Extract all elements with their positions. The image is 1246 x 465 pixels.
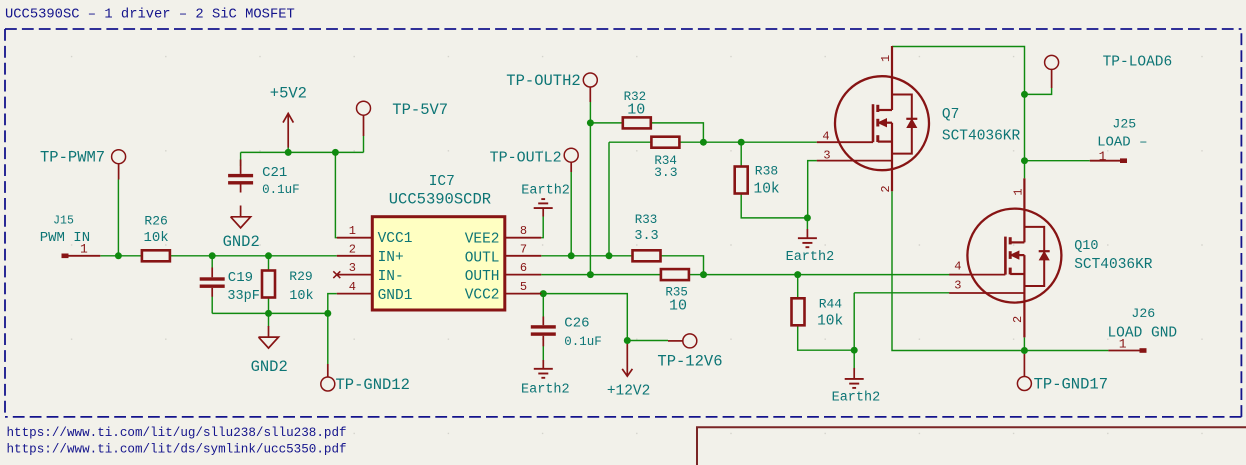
svg-text:10k: 10k (143, 230, 168, 246)
svg-text:C19: C19 (228, 270, 253, 286)
svg-text:2: 2 (349, 242, 356, 256)
svg-text:0.1uF: 0.1uF (564, 335, 602, 349)
svg-text:J25: J25 (1112, 116, 1136, 131)
svg-text:10k: 10k (289, 289, 313, 304)
svg-text:SCT4036KR: SCT4036KR (942, 129, 1021, 145)
svg-text:3: 3 (349, 261, 356, 275)
svg-text:+5V2: +5V2 (270, 85, 307, 103)
svg-text:1: 1 (879, 55, 893, 62)
svg-text:GND2: GND2 (223, 233, 260, 251)
svg-text:UCC5390SCDR: UCC5390SCDR (389, 190, 491, 208)
svg-text:TP-OUTL2: TP-OUTL2 (490, 150, 562, 167)
svg-text:3: 3 (954, 279, 961, 293)
svg-text:GND1: GND1 (378, 288, 413, 304)
svg-text:SCT4036KR: SCT4036KR (1074, 257, 1153, 273)
svg-text:Earth2: Earth2 (521, 383, 570, 398)
svg-text:VEE2: VEE2 (465, 232, 500, 248)
svg-text:Earth2: Earth2 (832, 390, 881, 405)
svg-text:IC7: IC7 (429, 174, 455, 190)
svg-text:1: 1 (349, 224, 356, 238)
svg-text:+12V2: +12V2 (607, 384, 651, 400)
svg-text:R29: R29 (289, 269, 312, 284)
svg-text:Q10: Q10 (1074, 239, 1098, 254)
svg-text:C21: C21 (262, 165, 287, 181)
svg-text:R38: R38 (755, 164, 778, 179)
svg-text:10k: 10k (754, 181, 780, 197)
svg-text:7: 7 (520, 242, 527, 256)
svg-text:IN-: IN- (378, 269, 404, 285)
svg-text:TP-GND12: TP-GND12 (336, 376, 410, 394)
svg-text:TP-12V6: TP-12V6 (657, 353, 722, 371)
svg-text:1: 1 (1119, 337, 1127, 352)
svg-text:3.3: 3.3 (634, 229, 658, 244)
svg-text:VCC1: VCC1 (378, 231, 413, 247)
svg-text:Earth2: Earth2 (521, 184, 570, 199)
svg-text:LOAD –: LOAD – (1097, 134, 1147, 150)
svg-text:1: 1 (1011, 188, 1025, 195)
svg-text:Q7: Q7 (942, 107, 959, 123)
svg-text:1: 1 (80, 242, 88, 257)
svg-text:TP-PWM7: TP-PWM7 (40, 149, 105, 167)
svg-text:10: 10 (627, 102, 645, 119)
svg-text:R33: R33 (635, 213, 658, 227)
svg-text:R44: R44 (819, 297, 843, 312)
svg-text:2: 2 (879, 185, 893, 192)
svg-text:5: 5 (520, 280, 527, 294)
svg-text:2: 2 (1011, 316, 1025, 323)
svg-text:10: 10 (669, 297, 687, 314)
svg-text:https://www.ti.com/lit/ds/syml: https://www.ti.com/lit/ds/symlink/ucc535… (7, 443, 347, 457)
svg-text:https://www.ti.com/lit/ug/sllu: https://www.ti.com/lit/ug/sllu238/sllu23… (7, 426, 347, 440)
svg-text:TP-GND17: TP-GND17 (1034, 376, 1108, 394)
svg-text:6: 6 (520, 261, 527, 275)
svg-text:4: 4 (822, 130, 829, 144)
svg-text:VCC2: VCC2 (465, 288, 500, 304)
svg-text:C26: C26 (564, 315, 589, 331)
svg-text:10k: 10k (817, 314, 843, 330)
svg-text:IN+: IN+ (378, 250, 404, 266)
svg-text:0.1uF: 0.1uF (262, 183, 300, 197)
svg-text:TP-5V7: TP-5V7 (392, 101, 448, 119)
svg-text:3: 3 (823, 148, 830, 162)
svg-text:UCC5390SC – 1 driver – 2 SiC M: UCC5390SC – 1 driver – 2 SiC MOSFET (5, 6, 295, 22)
svg-text:OUTH: OUTH (465, 269, 500, 285)
svg-text:4: 4 (349, 280, 356, 294)
svg-text:33pF: 33pF (227, 289, 259, 304)
svg-text:TP-OUTH2: TP-OUTH2 (506, 72, 580, 90)
svg-text:Earth2: Earth2 (786, 250, 835, 265)
svg-text:4: 4 (954, 260, 961, 274)
svg-text:OUTL: OUTL (465, 250, 500, 266)
svg-text:TP-LOAD6: TP-LOAD6 (1103, 54, 1173, 70)
svg-text:GND2: GND2 (251, 358, 288, 376)
svg-text:3.3: 3.3 (654, 165, 677, 180)
svg-text:1: 1 (1099, 149, 1107, 164)
svg-text:8: 8 (520, 224, 527, 238)
svg-text:J15: J15 (53, 214, 74, 227)
svg-text:R26: R26 (144, 214, 167, 229)
svg-text:J26: J26 (1131, 306, 1155, 321)
